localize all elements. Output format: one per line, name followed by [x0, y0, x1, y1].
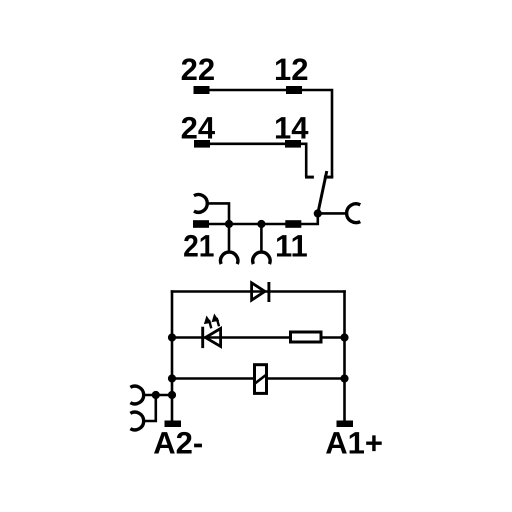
bridge socket at 21 (opening left) [194, 195, 207, 213]
terminal 14 [285, 140, 301, 148]
resistor R1 [291, 332, 322, 342]
svg-text:22: 22 [181, 52, 215, 87]
relay changeover armature [318, 171, 327, 214]
svg-text:A1+: A1+ [325, 426, 383, 461]
junction dot right rail / coil branch [340, 374, 348, 382]
wire lower socket to tee [144, 395, 156, 421]
junction dot right rail / LED branch [340, 333, 348, 341]
wire 24 to 14 [210, 143, 285, 146]
junction dot (left bridge) [225, 220, 233, 228]
wire 22 to 12 [209, 89, 286, 92]
LED triangle [205, 329, 220, 347]
bridge socket below right (opening down) [260, 224, 263, 252]
coil branch wire [172, 377, 253, 380]
diode D1 triangle [252, 283, 265, 300]
wire pivot down to 11 rail [206, 214, 318, 225]
relay coil K1 [255, 365, 267, 394]
svg-text:21: 21 [183, 228, 214, 263]
coil loop top wire [171, 290, 346, 293]
terminal 12 [286, 86, 302, 94]
bridge socket lower at A2 (opening left) [130, 412, 143, 430]
armature pivot junction [314, 209, 322, 217]
LED cathode bar [201, 327, 204, 348]
svg-text:A2-: A2- [153, 426, 203, 461]
terminal 21 [193, 220, 209, 228]
wire upper socket to rail [144, 394, 172, 397]
wire 12 to NC contact [302, 90, 332, 177]
coil diagonal [254, 374, 267, 384]
terminal A1 [337, 421, 354, 428]
LED light arrow 1 [209, 320, 211, 328]
wire 14 to NO contact [301, 144, 306, 177]
diode D1 cathode bar [267, 282, 270, 302]
LED branch wire [172, 336, 289, 339]
junction dot bridge tee [152, 391, 160, 399]
svg-text:11: 11 [275, 228, 308, 263]
junction dot left rail / coil branch [168, 374, 176, 382]
coil loop left rail [171, 290, 174, 420]
wire pivot to test socket 11 [318, 212, 347, 215]
junction dot left rail / bridge wire [168, 391, 176, 399]
terminal 22 [194, 86, 210, 94]
terminal 11 [285, 220, 301, 228]
bridge socket below left (opening down) [228, 224, 231, 252]
wire socket 21 to rail [207, 203, 229, 224]
svg-text:12: 12 [274, 52, 308, 87]
terminal A2 [165, 421, 182, 428]
NC contact seat (12) [324, 176, 333, 179]
test socket at 11 (opening right) [347, 204, 361, 223]
terminal 24 [194, 140, 210, 148]
junction dot (right bridge) [257, 220, 265, 228]
junction dot left rail / LED branch [168, 333, 176, 341]
NO contact seat (14) [305, 176, 314, 179]
bridge socket upper at A2 (opening left) [130, 386, 143, 404]
coil loop right rail [343, 290, 346, 420]
LED light arrow 2 [217, 318, 219, 326]
